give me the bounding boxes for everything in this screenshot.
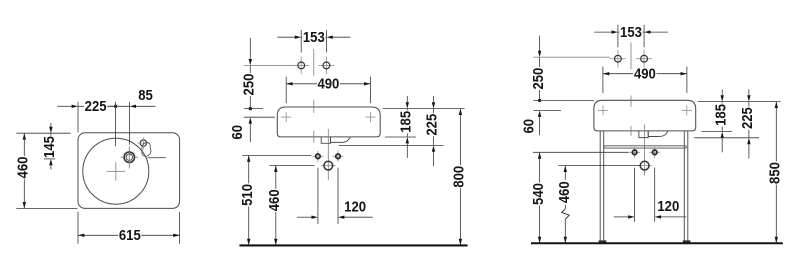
right view: right foot	[683, 240, 691, 242]
middle view: 250 extension lines	[244, 64, 297, 66]
middle view: 800 extension line	[383, 108, 465, 110]
right view: drain centreline	[644, 124, 646, 175]
svg-text:225: 225	[740, 107, 756, 129]
right view: dimension 540	[539, 152, 541, 182]
right view: 850 extension line	[698, 101, 781, 103]
middle view: tap centreline	[313, 49, 315, 76]
middle view: dimension 490	[286, 83, 317, 85]
middle view: left tap hole	[300, 57, 302, 75]
middle view: 153 extension lines	[300, 30, 302, 53]
left view: 615 extension lines	[77, 212, 79, 244]
right view: overflow scoop	[648, 131, 667, 137]
middle view: right fixing cross	[366, 116, 376, 118]
right view: right tap hole	[643, 50, 645, 68]
svg-text:225: 225	[85, 99, 107, 115]
svg-text:250: 250	[531, 68, 547, 90]
left view: dimension 85	[108, 105, 129, 107]
right view: dimension 490	[603, 73, 633, 75]
right view: 120 extension lines	[634, 168, 636, 222]
svg-text:510: 510	[240, 184, 256, 206]
svg-text:250: 250	[242, 74, 258, 96]
right view: dimension 60 arrow	[538, 111, 541, 117]
right view: right lower fixing hole	[649, 151, 660, 153]
right view: dimension 460	[564, 166, 566, 180]
right view: drain stub	[639, 131, 648, 138]
middle view: dimension 153	[277, 36, 295, 38]
right view: dimension 850	[775, 102, 777, 162]
middle view: drain centreline	[327, 129, 329, 180]
svg-text:60: 60	[522, 119, 538, 134]
right view: 250 extension lines	[533, 56, 610, 58]
svg-text:460: 460	[16, 157, 32, 179]
left view: dimension 145	[50, 123, 52, 127]
left view: 460 extension lines	[16, 132, 70, 134]
right view: 185 extension line	[702, 131, 733, 133]
right view: 460 break zigzag	[562, 209, 570, 219]
right view: dimension 120	[614, 216, 628, 218]
middle view: left fixing cross	[281, 116, 291, 118]
svg-text:850: 850	[768, 162, 784, 184]
svg-text:145: 145	[42, 136, 58, 158]
svg-text:185: 185	[713, 104, 729, 126]
right view: right leg	[683, 131, 685, 241]
right view: tap centreline	[630, 42, 632, 69]
right view: 460 extension line	[558, 165, 639, 167]
svg-text:225: 225	[425, 114, 441, 136]
svg-text:120: 120	[657, 199, 679, 215]
middle view: overflow scoop	[331, 137, 350, 142]
svg-text:615: 615	[119, 228, 141, 244]
svg-text:490: 490	[634, 67, 656, 83]
right view: left lower fixing hole	[629, 151, 640, 153]
right view: dimension 153	[594, 31, 612, 33]
left view: washbasin outline (plan)	[78, 133, 180, 209]
middle view: left lower fixing hole	[312, 155, 323, 157]
left view: faucet hole	[124, 152, 134, 162]
svg-text:153: 153	[303, 30, 325, 46]
right view: dimension 185	[721, 89, 723, 95]
middle view: 185 extension line	[385, 136, 416, 138]
left view: small hole icon with cross	[140, 140, 146, 146]
middle view: right tap hole	[325, 57, 327, 75]
svg-text:460: 460	[267, 189, 283, 211]
right view: basin outline	[594, 100, 696, 131]
middle view: 225 extension line	[339, 144, 444, 146]
right view: 153 extension lines	[617, 25, 619, 48]
middle view: 510 extension line	[242, 154, 311, 156]
svg-text:800: 800	[452, 166, 468, 188]
right view: 540 extension line	[533, 151, 629, 153]
middle view: basin outline	[277, 107, 380, 137]
right view: 490 extension lines	[602, 67, 604, 94]
right view: 60 extension line	[533, 109, 561, 111]
right view: drain hole	[637, 165, 652, 167]
svg-text:153: 153	[620, 25, 642, 41]
left view: 225/85 extension lines	[77, 102, 79, 133]
middle view: dimension 225	[433, 96, 435, 102]
left view: bowl circle	[83, 138, 149, 204]
left view: dimension 460	[23, 133, 25, 156]
left view: dimension 615	[78, 234, 118, 236]
middle view: floor line	[239, 244, 467, 246]
svg-text:120: 120	[344, 199, 366, 215]
right view: left tap hole	[617, 50, 619, 68]
right view: left leg	[599, 131, 601, 241]
middle view: drain stub	[321, 137, 330, 143]
svg-text:185: 185	[399, 111, 415, 133]
middle view: dimension 250	[249, 38, 251, 59]
right view: left foot	[599, 240, 607, 242]
svg-text:460: 460	[557, 181, 573, 203]
middle view: dimension 185	[406, 96, 408, 102]
middle view: 490 extension lines	[285, 77, 287, 104]
left view: faucet level line right	[148, 157, 166, 159]
svg-text:540: 540	[531, 183, 547, 205]
middle view: right lower fixing hole	[333, 155, 344, 157]
right view: towel rail	[604, 146, 686, 148]
left view: soap-dispenser blob outline	[142, 142, 151, 156]
middle view: dimension 460	[275, 166, 277, 189]
svg-text:60: 60	[230, 125, 246, 140]
middle view: dimension 120	[297, 216, 312, 218]
svg-text:85: 85	[138, 88, 153, 104]
right view: right fixing cross	[682, 109, 692, 111]
middle view: dimension 510	[248, 155, 250, 183]
left view: 145 extension line	[44, 158, 55, 160]
left view: dimension 225	[57, 105, 72, 107]
middle view: 460 extension line	[269, 165, 314, 167]
left view: faucet horizontal ticks	[121, 156, 124, 158]
middle view: 60 extension line	[244, 116, 275, 118]
right view: dimension 250	[539, 36, 541, 52]
right view: left fixing cross	[598, 109, 608, 111]
svg-text:490: 490	[317, 77, 339, 93]
middle view: dimension 60 arrow	[249, 117, 252, 123]
right view: floor line	[531, 242, 783, 244]
left view: bowl centre cross	[107, 170, 126, 172]
middle view: dimension 800	[459, 109, 461, 166]
middle view: 120 extension lines	[317, 168, 319, 224]
middle view: drain hole	[321, 165, 336, 167]
right view: dimension 225	[748, 89, 750, 95]
right view: 225 extension line	[694, 137, 759, 139]
left view: faucet vertical centreline tick	[128, 146, 130, 168]
